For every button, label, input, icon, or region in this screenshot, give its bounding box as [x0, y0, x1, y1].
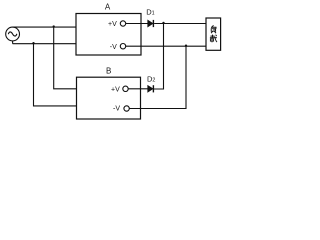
svg-text:-V: -V	[110, 44, 117, 51]
junction top rail branch	[53, 25, 55, 27]
junction D1 output	[162, 22, 164, 24]
wire A +V to diode D1	[126, 23, 148, 25]
diode D1	[148, 20, 154, 27]
label load char zai	[210, 35, 217, 43]
wire branch down to module B bottom input	[34, 44, 77, 106]
svg-text:+V: +V	[108, 21, 117, 28]
wire AC top rail to module A	[13, 26, 76, 28]
svg-text:A: A	[105, 2, 111, 11]
label load char fu	[211, 25, 216, 33]
svg-text:-V: -V	[113, 106, 120, 113]
wire branch down to module B top input	[54, 27, 77, 89]
wire tie D1 output down to D2 output	[154, 24, 164, 90]
wire AC bottom stub	[12, 41, 14, 44]
wire A -V to load bottom	[126, 45, 207, 47]
wire B +V to diode D2	[128, 88, 148, 90]
wire D1 cathode to load top	[154, 23, 206, 25]
terminal -V of A	[120, 44, 125, 49]
AC source G1	[6, 27, 20, 41]
junction A -V rail with B -V tie	[185, 45, 187, 47]
svg-text:B: B	[106, 67, 111, 76]
terminal +V of B	[123, 86, 128, 91]
module B box	[77, 77, 141, 119]
terminal +V of A	[120, 21, 125, 26]
wire AC bottom rail to module A	[13, 43, 76, 45]
load box	[206, 18, 221, 50]
terminal -V of B	[124, 106, 129, 111]
module A box	[76, 14, 141, 56]
svg-text:+V: +V	[111, 86, 120, 93]
junction bottom rail branch	[32, 42, 34, 44]
diode D2	[148, 85, 154, 92]
wire tie B -V up to A -V rail	[129, 46, 186, 108]
